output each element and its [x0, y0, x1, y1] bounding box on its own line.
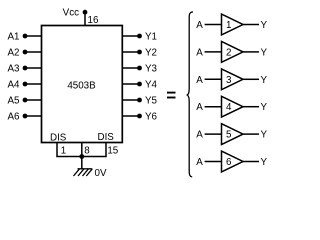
node dot Y3	[137, 66, 142, 71]
node dot Y1	[137, 34, 142, 39]
buffer 5 output wire	[243, 133, 259, 135]
svg-text:4503B: 4503B	[67, 80, 96, 91]
node dot Y6	[137, 114, 142, 119]
svg-text:4: 4	[226, 102, 232, 113]
svg-text:A: A	[196, 47, 203, 58]
wire IC to Y3	[122, 67, 140, 69]
node dot A2	[23, 50, 28, 55]
wire Vcc to pin 16	[84, 12, 86, 26]
svg-text:Y: Y	[261, 102, 268, 113]
wire IC to Y2	[122, 51, 140, 53]
Vcc node dot	[83, 10, 88, 15]
wire IC to Y1	[122, 35, 140, 37]
svg-text:A: A	[196, 102, 203, 113]
wire A5 to IC	[25, 99, 42, 101]
svg-text:DIS: DIS	[50, 132, 67, 143]
svg-text:Y6: Y6	[145, 112, 158, 123]
wire A3 to IC	[25, 67, 42, 69]
svg-text:A: A	[196, 75, 203, 86]
pin 8 lead wire	[81, 143, 83, 157]
svg-text:Y3: Y3	[145, 64, 158, 75]
svg-text:2: 2	[226, 47, 231, 58]
svg-text:1: 1	[226, 20, 231, 31]
buffer 1 input wire	[205, 24, 222, 26]
buffer 6 input wire	[205, 161, 222, 163]
svg-text:DIS: DIS	[98, 132, 115, 143]
svg-text:A1: A1	[8, 32, 20, 43]
wire IC to Y4	[122, 83, 140, 85]
buffer 5 triangle	[222, 124, 244, 145]
svg-text:Y4: Y4	[145, 80, 158, 91]
svg-text:A2: A2	[8, 48, 20, 59]
node dot Y2	[137, 50, 142, 55]
buffer 2 input wire	[205, 51, 222, 53]
svg-text:0V: 0V	[95, 168, 107, 179]
buffer 1 output wire	[243, 24, 259, 26]
buffer 4 triangle	[222, 96, 244, 117]
buffer 4 output wire	[243, 106, 259, 108]
node dot A6	[23, 114, 28, 119]
svg-text:A: A	[196, 157, 203, 168]
ground symbol	[74, 169, 93, 176]
buffer 3 input wire	[205, 78, 222, 80]
wire to ground	[81, 157, 83, 170]
svg-text:Y: Y	[261, 75, 268, 86]
svg-text:A3: A3	[8, 64, 21, 75]
node dot A5	[23, 98, 28, 103]
wire A1 to IC	[25, 35, 42, 37]
curly brace	[187, 12, 193, 177]
svg-text:5: 5	[226, 130, 232, 141]
svg-text:A4: A4	[8, 80, 21, 91]
node dot A1	[23, 34, 28, 39]
buffer 2 triangle	[222, 42, 244, 63]
svg-text:Y: Y	[261, 47, 268, 58]
svg-text:16: 16	[88, 15, 99, 26]
svg-text:3: 3	[226, 75, 232, 86]
svg-text:Vcc: Vcc	[63, 7, 79, 18]
svg-text:A: A	[196, 20, 203, 31]
node dot Y5	[137, 98, 142, 103]
svg-text:6: 6	[226, 157, 232, 168]
junction dot at pin 8	[79, 154, 84, 159]
wire IC to Y5	[122, 99, 140, 101]
svg-text:Y5: Y5	[145, 96, 158, 107]
svg-text:8: 8	[84, 146, 90, 157]
equals sign	[167, 93, 176, 98]
svg-text:1: 1	[61, 146, 66, 157]
buffer 5 input wire	[205, 133, 222, 135]
buffer 3 triangle	[222, 69, 244, 90]
IC U1 4503B body	[42, 26, 123, 143]
node dot A3	[23, 66, 28, 71]
svg-text:A5: A5	[8, 96, 21, 107]
pin 1 lead wire	[56, 143, 58, 157]
buffer 4 input wire	[205, 106, 222, 108]
buffer 1 triangle	[222, 14, 244, 35]
wire A6 to IC	[25, 115, 42, 117]
bus wire joining pins 1, 8, 15	[56, 156, 106, 158]
wire A4 to IC	[25, 83, 42, 85]
node dot Y4	[137, 82, 142, 87]
buffer 2 output wire	[243, 51, 259, 53]
pin 15 lead wire	[105, 143, 107, 157]
svg-text:Y: Y	[261, 130, 268, 141]
svg-text:Y2: Y2	[145, 48, 157, 59]
wire IC to Y6	[122, 115, 140, 117]
node dot A4	[23, 82, 28, 87]
svg-text:A6: A6	[8, 112, 21, 123]
svg-text:Y: Y	[261, 20, 268, 31]
buffer 6 output wire	[243, 161, 259, 163]
buffer 3 output wire	[243, 78, 259, 80]
svg-text:15: 15	[107, 146, 118, 157]
buffer 6 triangle	[222, 151, 244, 172]
wire A2 to IC	[25, 51, 42, 53]
svg-text:A: A	[196, 130, 203, 141]
svg-text:Y: Y	[261, 157, 268, 168]
svg-text:Y1: Y1	[145, 32, 157, 43]
